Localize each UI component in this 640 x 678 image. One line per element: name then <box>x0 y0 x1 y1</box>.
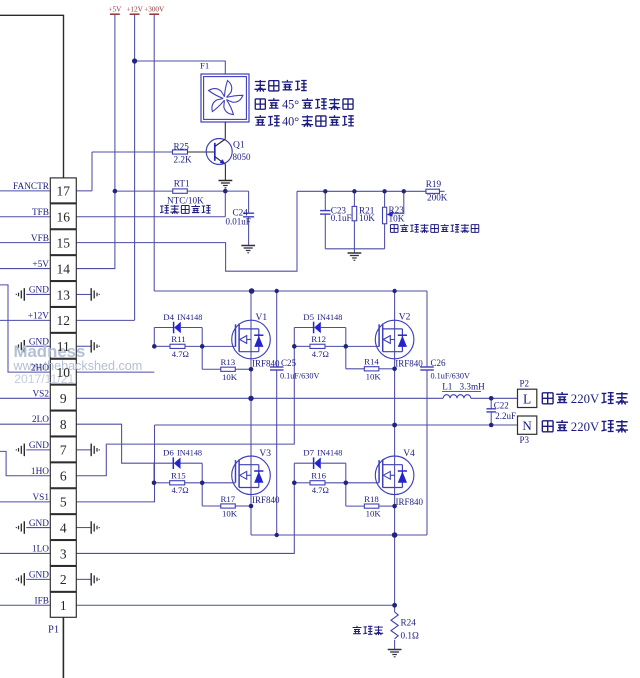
svg-text:IRF840: IRF840 <box>396 497 424 507</box>
svg-text:R16: R16 <box>311 471 326 481</box>
transistor Q1 8050 <box>206 139 232 165</box>
node V1 drain on +300V rail <box>249 288 255 294</box>
svg-text:15: 15 <box>57 235 71 250</box>
capacitor C23 0.1uF <box>324 191 326 210</box>
ground rail for C23/R21/R23 <box>325 248 384 250</box>
svg-text:VS2: VS2 <box>32 389 49 399</box>
connector P1 pin boxes <box>50 178 76 203</box>
svg-text:D7: D7 <box>303 448 314 458</box>
svg-text:220V: 220V <box>571 392 600 406</box>
resistor R14 10K gate pulldown <box>345 346 347 368</box>
node VS2 left-leg midpoint <box>248 396 253 401</box>
ground pin 13 right stub <box>76 293 91 295</box>
svg-text:1LO: 1LO <box>32 545 49 555</box>
svg-text:TFB: TFB <box>32 208 49 218</box>
svg-text:GND: GND <box>29 441 49 451</box>
wire shunt drop to R24 <box>394 535 396 605</box>
wire D5 cell verticals <box>293 328 295 347</box>
svg-text:0.1uF/630V: 0.1uF/630V <box>431 372 470 381</box>
node R11 taps <box>152 344 157 349</box>
mosfet V4 IRF840 <box>375 456 414 495</box>
ground R24 <box>388 649 402 651</box>
svg-text:10K: 10K <box>222 372 238 382</box>
mosfet V3 IRF840 <box>232 456 271 495</box>
wire VFB feedback net <box>297 190 426 192</box>
svg-text:IFB: IFB <box>35 596 49 606</box>
wire VS2 / L output line from pin 9 <box>0 397 50 399</box>
wire Q1 emitter to ground <box>224 164 226 180</box>
svg-text:R13: R13 <box>221 357 236 367</box>
caption 小于40°关闭风扇 <box>255 115 266 125</box>
wire 2LO from pin 8 <box>0 423 50 425</box>
ground C24 <box>241 245 255 247</box>
inductor L1 3.3mH <box>443 395 471 399</box>
resistor R21 10K <box>353 191 355 206</box>
mosfet V1 IRF840 <box>232 320 271 359</box>
ground pin 2 right stub <box>76 578 91 580</box>
resistor R15 4.7Ω <box>154 482 170 484</box>
svg-text:R14: R14 <box>364 357 379 367</box>
connector P1 bottom lead <box>62 617 64 678</box>
svg-text:2: 2 <box>60 572 67 587</box>
svg-text:8: 8 <box>60 417 67 432</box>
svg-text:17: 17 <box>57 184 71 199</box>
power rail +12V <box>134 14 136 320</box>
node N right-leg midpoint <box>392 423 397 428</box>
ground feedback divider <box>348 252 362 254</box>
ground Q1 emitter <box>219 180 233 182</box>
svg-text:10K: 10K <box>359 213 375 223</box>
svg-text:V2: V2 <box>399 313 411 323</box>
svg-text:3.3mH: 3.3mH <box>460 382 486 392</box>
svg-text:VS1: VS1 <box>32 493 49 503</box>
svg-text:R19: R19 <box>426 179 442 189</box>
svg-text:16: 16 <box>57 210 71 225</box>
caption 正弦220V输出 N <box>542 421 553 432</box>
power rail +5V <box>114 14 116 191</box>
svg-text:10K: 10K <box>366 509 382 519</box>
diode D6 IN4148 <box>154 462 173 464</box>
svg-text:4.7Ω: 4.7Ω <box>172 485 189 495</box>
svg-text:IRF840: IRF840 <box>252 495 280 505</box>
svg-text:+12V: +12V <box>28 312 50 322</box>
svg-text:1HO: 1HO <box>31 467 49 477</box>
svg-text:0.1uF: 0.1uF <box>331 213 352 223</box>
resistor R12 4.7Ω <box>294 345 310 347</box>
svg-text:4.7Ω: 4.7Ω <box>172 349 189 359</box>
wire TFB net from pin 16 <box>0 216 50 218</box>
svg-text:9: 9 <box>60 391 67 406</box>
resistor R19 200K <box>426 189 440 193</box>
node IFB/R24 junction <box>392 603 397 608</box>
capacitor C24 0.01uF <box>248 191 250 213</box>
svg-text:13: 13 <box>57 287 71 302</box>
fan F1 <box>201 74 249 122</box>
svg-text:8050: 8050 <box>233 152 252 162</box>
svg-text:VFB: VFB <box>31 234 49 244</box>
svg-text:IN4148: IN4148 <box>317 449 342 458</box>
svg-text:R25: R25 <box>174 141 190 151</box>
node R16 taps <box>292 481 297 486</box>
svg-text:7: 7 <box>60 443 67 458</box>
resistor R17 10K gate pulldown <box>201 483 203 506</box>
svg-text:R24: R24 <box>401 617 417 627</box>
terminal P2 L output <box>518 389 537 407</box>
ground pin 13 left stub <box>26 293 50 295</box>
wire +12V from pin 12 <box>0 319 50 321</box>
ground pin 4 left stub <box>26 527 50 529</box>
capacitor C22 2.2uF <box>490 398 492 408</box>
node RT1/TFB/C24 junction <box>223 189 228 194</box>
svg-text:GND: GND <box>29 286 49 296</box>
wire D6 cell verticals <box>153 463 155 483</box>
svg-text:5: 5 <box>60 494 67 509</box>
terminal P3 N output <box>518 416 537 434</box>
diode D7 IN4148 <box>294 462 313 464</box>
caption 康铜丝 <box>353 626 362 634</box>
wire D7 cell verticals <box>293 463 295 483</box>
svg-text:R11: R11 <box>171 334 185 344</box>
wire DC bus branch C26 <box>426 291 428 367</box>
svg-text:R12: R12 <box>311 334 326 344</box>
svg-text:V1: V1 <box>256 313 268 323</box>
wire left leg drain-source column <box>250 291 252 535</box>
svg-text:C25: C25 <box>281 358 297 368</box>
diode D5 IN4148 <box>294 327 313 329</box>
resistor R24 0.1Ω constantan shunt <box>394 605 396 612</box>
resistor R13 10K gate pulldown <box>201 346 203 369</box>
svg-text:0.1Ω: 0.1Ω <box>401 631 419 641</box>
thermistor RT1 NTC/10K <box>115 190 173 192</box>
svg-text:D4: D4 <box>163 312 174 322</box>
wire right leg drain-source column <box>394 291 396 535</box>
wire VFB net from pin 15 <box>0 242 50 244</box>
svg-text:Q1: Q1 <box>233 140 245 150</box>
wire +300V top rail <box>154 290 427 292</box>
svg-text:V3: V3 <box>259 449 271 459</box>
wire fan to Q1 collector <box>224 122 226 139</box>
svg-text:RT1: RT1 <box>174 178 190 188</box>
svg-text:10K: 10K <box>366 371 382 381</box>
svg-text:GND: GND <box>29 571 49 581</box>
svg-text:IN4148: IN4148 <box>317 313 342 322</box>
node V4 source on negative rail <box>392 532 398 538</box>
svg-text:L1: L1 <box>442 382 453 392</box>
svg-text:2HO: 2HO <box>31 363 49 373</box>
svg-text:P2: P2 <box>520 379 530 389</box>
svg-text:GND: GND <box>29 337 49 347</box>
svg-text:1: 1 <box>60 598 67 613</box>
svg-text:R18: R18 <box>364 494 379 504</box>
svg-text:C26: C26 <box>431 358 447 368</box>
ground pin 11 right stub <box>76 345 91 347</box>
svg-text:2LO: 2LO <box>32 415 49 425</box>
svg-text:40°: 40° <box>282 115 299 129</box>
svg-text:C22: C22 <box>494 400 509 410</box>
svg-text:2.2K: 2.2K <box>174 154 192 164</box>
capacitor C25 0.1uF/630V <box>270 366 284 368</box>
caption 正弦波输出电压调整 <box>390 225 398 233</box>
ground pin 7 left stub <box>26 449 50 451</box>
svg-text:V4: V4 <box>403 449 415 459</box>
svg-text:12: 12 <box>57 313 71 328</box>
ground pin 2 left stub <box>26 578 50 580</box>
wire +5V from pin 14 <box>0 268 50 270</box>
caption 大于45°开启风扇 <box>255 99 265 109</box>
svg-text:IRF840: IRF840 <box>252 358 280 368</box>
svg-text:+300V: +300V <box>144 6 165 14</box>
svg-text:6: 6 <box>60 469 67 484</box>
ground pin 7 right stub <box>76 449 91 451</box>
wire negative bus bottom rail <box>251 534 427 536</box>
svg-text:L: L <box>523 391 531 406</box>
svg-text:IN4148: IN4148 <box>177 449 202 458</box>
svg-text:P1: P1 <box>48 625 59 636</box>
svg-text:R15: R15 <box>171 471 186 481</box>
wire DC bus branch C25 <box>276 291 278 367</box>
svg-text:D6: D6 <box>163 448 174 458</box>
main board outline (controller module, partially off-canvas) <box>0 15 64 678</box>
svg-text:IN4148: IN4148 <box>177 313 202 322</box>
ground pin 11 left stub <box>26 345 50 347</box>
svg-text:220V: 220V <box>571 420 600 434</box>
fan caption 散热风扇 <box>255 80 267 92</box>
mosfet V2 IRF840 <box>375 320 414 359</box>
node R23 wiper tap <box>402 189 406 193</box>
svg-text:FANCTR: FANCTR <box>13 182 50 192</box>
svg-text:IRF840: IRF840 <box>395 358 423 368</box>
caption 温度传感器 <box>160 205 169 213</box>
node R15 taps <box>152 481 157 486</box>
svg-text:10: 10 <box>57 365 71 380</box>
node +12V fan junction <box>132 58 137 63</box>
power rail +300V <box>153 14 155 291</box>
wire FANCTR net from pin 17 <box>0 190 50 192</box>
wire IFB from pin 1 <box>0 604 50 606</box>
svg-text:4.7Ω: 4.7Ω <box>312 349 329 359</box>
node +5V/RT1 junction <box>113 189 118 194</box>
diode D4 IN4148 <box>154 327 173 329</box>
svg-text:N: N <box>522 418 532 433</box>
svg-text:2.2uF: 2.2uF <box>495 411 516 421</box>
node V2 drain on +300V rail <box>392 289 396 293</box>
svg-text:10K: 10K <box>389 214 405 224</box>
caption 正弦220V输出 L <box>542 393 553 404</box>
node C22 top on L line <box>489 396 494 401</box>
node R23 top <box>382 189 386 193</box>
svg-text:+5V: +5V <box>108 6 122 14</box>
wire D4 cell verticals <box>153 328 155 347</box>
ground pin 4 right stub <box>76 527 91 529</box>
svg-text:14: 14 <box>57 261 71 276</box>
svg-text:11: 11 <box>57 339 70 354</box>
node R12 taps <box>292 344 297 349</box>
svg-text:0.1uF/630V: 0.1uF/630V <box>280 372 319 381</box>
svg-text:NTC/10K: NTC/10K <box>167 195 204 205</box>
node C23 tap <box>323 189 327 193</box>
node C22 bottom on N line <box>489 423 494 428</box>
wire 2HO from pin 10 <box>0 285 50 372</box>
svg-text:D5: D5 <box>303 312 314 322</box>
svg-text:R17: R17 <box>221 494 236 504</box>
node C25 on negative rail <box>275 533 279 537</box>
svg-text:4: 4 <box>60 520 67 535</box>
resistor R18 10K gate pulldown <box>345 483 347 506</box>
resistor R11 4.7Ω <box>154 345 170 347</box>
svg-text:+12V: +12V <box>126 6 143 14</box>
svg-text:0.01uF: 0.01uF <box>226 217 251 227</box>
resistor R16 4.7Ω <box>294 482 310 484</box>
capacitor C26 0.1uF/630V <box>420 366 434 368</box>
node R21 tap <box>352 189 356 193</box>
node C25 tap on +300V rail <box>275 289 279 293</box>
svg-text:4.7Ω: 4.7Ω <box>312 485 329 495</box>
svg-text:10K: 10K <box>222 509 238 519</box>
wire 1HO from pin 6 <box>0 451 50 475</box>
trimmer R23 10K <box>384 191 386 207</box>
svg-text:F1: F1 <box>200 60 209 70</box>
wire 1LO from pin 3 <box>0 552 50 554</box>
svg-text:3: 3 <box>60 546 67 561</box>
wire VS1 / N reference from pin 5 <box>0 501 50 503</box>
svg-text:45°: 45° <box>282 98 299 112</box>
svg-text:P3: P3 <box>520 435 530 445</box>
resistor R25 <box>92 151 173 153</box>
svg-text:+5V: +5V <box>32 260 49 270</box>
svg-text:200K: 200K <box>427 192 448 202</box>
svg-text:GND: GND <box>29 519 49 529</box>
wire +12V rail to fan F1 <box>135 61 226 74</box>
wire N output line <box>155 424 518 426</box>
